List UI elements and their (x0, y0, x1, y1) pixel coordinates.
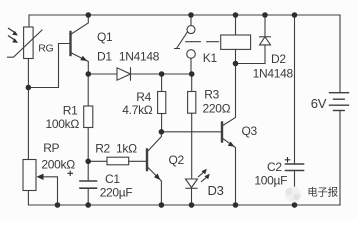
svg-text:C1: C1 (105, 172, 120, 186)
svg-text:RG: RG (38, 42, 53, 54)
svg-text:K1: K1 (203, 51, 218, 65)
svg-text:电子报: 电子报 (307, 185, 338, 198)
svg-text:6V: 6V (311, 96, 327, 111)
svg-text:R1: R1 (63, 103, 78, 117)
svg-text:R3: R3 (204, 88, 219, 102)
svg-text:220Ω: 220Ω (203, 101, 231, 115)
svg-text:100kΩ: 100kΩ (46, 117, 80, 131)
svg-text:R2: R2 (95, 141, 110, 155)
svg-text:D1: D1 (97, 49, 112, 63)
svg-text:D2: D2 (271, 52, 286, 66)
svg-text:4.7kΩ: 4.7kΩ (122, 103, 152, 117)
svg-text:1N4148: 1N4148 (119, 49, 160, 63)
svg-text:Q2: Q2 (169, 153, 185, 167)
svg-text:D3: D3 (208, 183, 224, 198)
svg-text:1kΩ: 1kΩ (116, 141, 137, 155)
svg-text:100µF: 100µF (254, 174, 287, 188)
svg-text:220µF: 220µF (100, 186, 133, 200)
svg-text:R4: R4 (136, 90, 151, 104)
svg-text:RP: RP (43, 141, 59, 155)
svg-text:Q1: Q1 (97, 30, 113, 44)
svg-text:C2: C2 (267, 160, 282, 174)
svg-text:1N4148: 1N4148 (253, 66, 294, 80)
svg-text:Q3: Q3 (242, 124, 258, 138)
svg-text:200kΩ: 200kΩ (41, 157, 75, 171)
